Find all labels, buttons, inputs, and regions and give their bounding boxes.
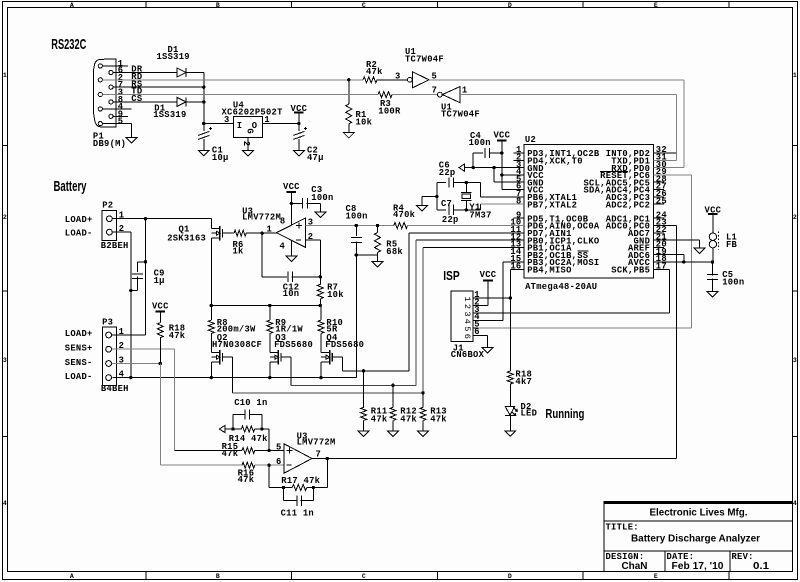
svg-text:ADC2,PC2: ADC2,PC2 bbox=[606, 200, 650, 210]
wire LOAD- bus bbox=[112, 377, 356, 379]
svg-text:ChaN: ChaN bbox=[622, 561, 648, 572]
wire Q1 source down bbox=[210, 238, 212, 306]
svg-text:0.1: 0.1 bbox=[753, 561, 769, 572]
transistor Q2 H7N0308CF bbox=[211, 352, 220, 354]
svg-text:LMV772M: LMV772M bbox=[242, 213, 281, 223]
svg-text:LOAD+: LOAD+ bbox=[65, 329, 93, 339]
svg-text:3: 3 bbox=[793, 357, 797, 364]
capacitor C3 100n bbox=[291, 202, 301, 204]
inductor L1 FB bbox=[709, 233, 716, 240]
wire Q2 gate drop bbox=[231, 357, 233, 393]
wire P1 pin4 stub bbox=[102, 108, 131, 110]
wire source bus y305 bbox=[211, 305, 321, 307]
op-amp U1 inverter a bbox=[408, 77, 413, 82]
capacitor C11 1n bbox=[283, 488, 285, 501]
svg-text:RS232C: RS232C bbox=[51, 36, 86, 53]
svg-text:SENS+: SENS+ bbox=[65, 344, 93, 354]
svg-text:47k: 47k bbox=[430, 415, 447, 425]
svg-text:VCC: VCC bbox=[493, 131, 510, 141]
wire Q3 source to LOAD- bus bbox=[269, 362, 271, 378]
wire PB0 net to Q4 gate bbox=[409, 232, 524, 234]
wire PB2 net to Q2 gate bbox=[423, 246, 524, 248]
wire P3 pin1 LOAD+ bbox=[112, 334, 146, 336]
wire gnd line to pin3 bbox=[464, 167, 524, 169]
wire R6 to U3a output bbox=[246, 232, 276, 234]
diode D1 (top) bbox=[177, 68, 186, 77]
svg-text:47k: 47k bbox=[400, 415, 417, 425]
svg-text:5: 5 bbox=[276, 442, 282, 452]
title block bbox=[604, 502, 793, 572]
svg-text:8: 8 bbox=[280, 216, 286, 226]
svg-text:LOAD-: LOAD- bbox=[65, 372, 93, 382]
svg-text:1: 1 bbox=[3, 72, 7, 79]
wire U3a -in down bbox=[306, 239, 321, 241]
wire MOSI net pin15 bbox=[503, 261, 524, 263]
resistor R5 68k bbox=[376, 224, 379, 227]
resistor R4 470k bbox=[394, 223, 408, 229]
svg-text:17: 17 bbox=[656, 262, 667, 272]
wire U4 pin3 input bbox=[204, 123, 234, 125]
U2 pin 22 stub bbox=[654, 232, 664, 234]
svg-text:P3: P3 bbox=[102, 318, 113, 328]
svg-text:CS: CS bbox=[131, 94, 142, 104]
diode D1 (bottom) bbox=[177, 97, 186, 106]
capacitor C10 1n bbox=[232, 415, 234, 430]
svg-text:22p: 22p bbox=[439, 168, 456, 178]
wire P1 pin9 stub bbox=[113, 115, 128, 117]
svg-text:100R: 100R bbox=[378, 106, 401, 116]
U2 pin 26 stub bbox=[654, 196, 664, 198]
svg-text:1SS319: 1SS319 bbox=[153, 110, 186, 120]
U2 pin14 SS overline bbox=[577, 250, 588, 252]
svg-text:Running: Running bbox=[545, 407, 584, 421]
node rail to U4 input bbox=[202, 122, 205, 125]
svg-text:C11 1n: C11 1n bbox=[281, 508, 314, 518]
svg-text:4: 4 bbox=[462, 319, 472, 324]
svg-text:10n: 10n bbox=[283, 289, 300, 299]
svg-text:47k: 47k bbox=[238, 475, 255, 485]
svg-text:VCC: VCC bbox=[152, 302, 169, 312]
svg-text:B2BEH: B2BEH bbox=[101, 241, 129, 251]
capacitor C9 1u bbox=[145, 219, 147, 335]
svg-text:C7: C7 bbox=[441, 199, 452, 209]
wire XTAL1 pin7 bbox=[480, 183, 482, 197]
svg-text:PB4,MISO: PB4,MISO bbox=[527, 266, 571, 276]
resistor R8 200m/3W bbox=[210, 306, 212, 321]
wire U3a +in / AIN0 line bbox=[306, 225, 394, 227]
wire RS net bbox=[113, 86, 204, 88]
U2 pin 27 stub bbox=[654, 189, 664, 191]
svg-text:C: C bbox=[362, 573, 366, 580]
wire U1b input from TXD bbox=[460, 94, 677, 96]
svg-text:1SS319: 1SS319 bbox=[157, 52, 190, 62]
U2 pin 11 stub bbox=[514, 232, 524, 234]
svg-text:3: 3 bbox=[3, 357, 7, 364]
wire RD net bbox=[102, 79, 363, 81]
svg-text:16: 16 bbox=[510, 262, 521, 272]
ground crystal bbox=[416, 206, 427, 212]
ground R13 bbox=[418, 431, 429, 437]
svg-text:A: A bbox=[70, 2, 74, 9]
U2 pin 20 stub bbox=[654, 246, 664, 248]
svg-text:2: 2 bbox=[793, 214, 797, 221]
svg-text:6: 6 bbox=[276, 457, 282, 467]
wire MISO net pin16 bbox=[510, 268, 524, 270]
svg-text:100n: 100n bbox=[311, 193, 333, 203]
connector J1 CN6BOX bbox=[451, 291, 473, 342]
U2 pin 24 stub bbox=[654, 217, 664, 219]
resistor R14 47k bbox=[225, 428, 242, 430]
wire U1a output to RXD bbox=[429, 79, 684, 81]
wire PB1 net to Q3 gate bbox=[416, 239, 524, 241]
svg-text:47k: 47k bbox=[222, 449, 239, 459]
U2 pin32 stub bbox=[654, 152, 677, 154]
resistor R16 47k bbox=[160, 464, 242, 466]
svg-text:B4BEH: B4BEH bbox=[101, 384, 129, 394]
wire RXD pin30 bbox=[654, 167, 685, 169]
svg-text:1: 1 bbox=[793, 72, 797, 79]
svg-text:1: 1 bbox=[264, 115, 270, 125]
wire VCC to pin4 bbox=[502, 174, 524, 176]
svg-text:3: 3 bbox=[224, 115, 230, 125]
svg-text:5: 5 bbox=[462, 326, 472, 331]
svg-text:1µ: 1µ bbox=[154, 276, 165, 286]
svg-text:B: B bbox=[216, 2, 220, 9]
svg-text:10k: 10k bbox=[327, 290, 344, 300]
resistor R15 47k bbox=[174, 450, 242, 452]
resistor R2 47k bbox=[363, 77, 377, 83]
svg-text:4: 4 bbox=[119, 369, 125, 379]
svg-text:100n: 100n bbox=[346, 212, 368, 222]
resistor R12 47k bbox=[392, 385, 394, 407]
svg-text:10µ: 10µ bbox=[212, 153, 229, 163]
wire rail to ground bbox=[422, 196, 437, 198]
svg-text:VCC: VCC bbox=[283, 182, 300, 192]
svg-text:LOAD+: LOAD+ bbox=[65, 215, 93, 225]
ground ISP bbox=[482, 348, 493, 354]
wire diode power rail vertical bbox=[203, 73, 205, 124]
ground C2 bbox=[293, 150, 304, 156]
svg-text:D: D bbox=[508, 573, 512, 580]
svg-text:FDS5680: FDS5680 bbox=[274, 340, 313, 350]
resistor R1 10k bbox=[348, 80, 350, 104]
ground C8/R5 bbox=[372, 261, 383, 267]
svg-text:100n: 100n bbox=[469, 138, 491, 148]
wire ADC0 pin23 to U3b output bbox=[654, 225, 677, 227]
regulator U4 XC6202P502T bbox=[233, 116, 262, 137]
op-amp U3a LMV772M bbox=[276, 218, 305, 248]
svg-text:XC6202P502T: XC6202P502T bbox=[222, 108, 284, 118]
ground R12 bbox=[388, 431, 399, 437]
U2 pin 2 stub bbox=[514, 159, 524, 161]
svg-text:470k: 470k bbox=[393, 210, 416, 220]
resistor R18 47k bbox=[157, 323, 163, 338]
svg-text:1: 1 bbox=[462, 297, 472, 302]
ground C1 bbox=[198, 150, 209, 156]
wire P3 pin2 SENS+ bbox=[112, 348, 175, 350]
ground U3a bbox=[286, 256, 297, 262]
wire Q4 gate drop bbox=[341, 357, 343, 371]
U2 pin 9 stub bbox=[514, 217, 524, 219]
svg-text:2: 2 bbox=[241, 141, 251, 146]
resistor R9 1R/1W bbox=[269, 306, 271, 321]
wire P1 pin5 to ground bbox=[102, 123, 131, 125]
ground C5 bbox=[707, 292, 718, 298]
connector P2 B2BEH bbox=[102, 211, 117, 241]
svg-text:FB: FB bbox=[726, 240, 738, 250]
wire ISP pin6 gnd bbox=[478, 334, 487, 336]
wire P1 pin1 stub bbox=[102, 65, 128, 67]
svg-text:TC7W04F: TC7W04F bbox=[405, 55, 444, 65]
svg-text:47µ: 47µ bbox=[307, 153, 324, 163]
capacitor C6 22p bbox=[437, 182, 446, 184]
svg-text:E: E bbox=[654, 2, 658, 9]
node RS junction bbox=[202, 86, 205, 89]
svg-text:Electronic Lives Mfg.: Electronic Lives Mfg. bbox=[650, 508, 748, 519]
ground P1 bbox=[126, 138, 137, 144]
capacitor C2 47u bbox=[298, 124, 300, 132]
resistor R3 100R bbox=[378, 92, 392, 98]
wire XTAL2 pin8 bbox=[466, 209, 480, 211]
ground U4 bbox=[243, 150, 254, 156]
svg-text:C10 1n: C10 1n bbox=[234, 398, 267, 408]
svg-text:25: 25 bbox=[656, 196, 667, 206]
svg-text:4: 4 bbox=[3, 500, 7, 507]
svg-text:3: 3 bbox=[395, 71, 401, 81]
capacitor C8 100n bbox=[355, 224, 358, 227]
wire AVCC pin18 bbox=[654, 261, 713, 263]
svg-text:6: 6 bbox=[462, 334, 472, 339]
svg-text:PB7,XTAL2: PB7,XTAL2 bbox=[527, 200, 577, 210]
wire D1 cathode to power node bbox=[186, 72, 204, 74]
wire U3a pin4 bbox=[291, 240, 293, 256]
mcu U2 ATmega48-20AU bbox=[524, 145, 654, 278]
wire P2 pin2 down bbox=[112, 231, 131, 233]
svg-text:C: C bbox=[362, 2, 366, 9]
wire P2 pin1 to Q1 drain bbox=[112, 218, 211, 220]
svg-text:REV:: REV: bbox=[732, 552, 754, 562]
ground pin21 bbox=[694, 248, 705, 254]
svg-text:1k: 1k bbox=[233, 247, 245, 257]
wire U3a pin8 bbox=[290, 203, 292, 225]
svg-text:68k: 68k bbox=[386, 247, 403, 257]
wire U4 pin1 output bbox=[263, 123, 299, 125]
svg-text:TC7W04F: TC7W04F bbox=[441, 109, 480, 119]
resistor R10 5R bbox=[320, 306, 322, 321]
svg-text:3: 3 bbox=[462, 311, 472, 316]
wire U3b output bbox=[312, 458, 327, 460]
svg-text:B: B bbox=[216, 573, 220, 580]
wire GND pin21 bbox=[654, 239, 700, 241]
net arrow gnd (R14) bbox=[219, 426, 225, 433]
svg-text:47k: 47k bbox=[169, 331, 186, 341]
svg-text:7M37: 7M37 bbox=[469, 210, 491, 220]
wire C6-C7 left rail bbox=[436, 183, 438, 210]
crystal Y1 7M37 bbox=[465, 181, 468, 184]
capacitor C7 22p bbox=[437, 209, 446, 211]
wire D1 bottom cathode to power node bbox=[186, 101, 204, 103]
ground D2 bbox=[505, 431, 516, 437]
connector P3 B4BEH bbox=[102, 327, 116, 385]
wire R4 to pin10 bbox=[408, 225, 524, 227]
svg-text:ATmega48-20AU: ATmega48-20AU bbox=[525, 282, 597, 292]
wire ADC6 pin19 bbox=[654, 254, 684, 256]
svg-text:Battery Discharge Analyzer: Battery Discharge Analyzer bbox=[631, 534, 760, 545]
svg-text:ISP: ISP bbox=[443, 269, 460, 283]
svg-text:4k7: 4k7 bbox=[515, 377, 532, 387]
svg-text:5: 5 bbox=[118, 117, 124, 127]
wire ISP pin1 MISO bbox=[478, 297, 510, 299]
capacitor C12 10n bbox=[261, 233, 263, 277]
wire SCK pin17 to ISP bbox=[654, 268, 670, 270]
capacitor C1 10u bbox=[203, 124, 205, 132]
svg-text:2: 2 bbox=[462, 304, 472, 309]
node RD/R1 junction bbox=[347, 78, 350, 81]
svg-text:2: 2 bbox=[3, 214, 7, 221]
svg-text:H7N0308CF: H7N0308CF bbox=[212, 340, 262, 350]
capacitor C4 100n bbox=[473, 152, 483, 154]
ground C3 bbox=[315, 212, 326, 218]
ground R1 bbox=[343, 133, 354, 139]
node U4 out / C2 bbox=[297, 122, 300, 125]
transistor Q4 FDS5680 bbox=[321, 352, 330, 354]
svg-text:DB9(M): DB9(M) bbox=[93, 139, 126, 149]
svg-text:47k: 47k bbox=[371, 415, 388, 425]
wire C8/R5 gnd bus bbox=[356, 254, 377, 256]
wire ISP pin2 VCC bbox=[478, 305, 488, 307]
svg-text:D: D bbox=[508, 2, 512, 9]
wire RESET pin29 to ISP bbox=[654, 174, 692, 176]
resistor R13 47k bbox=[422, 393, 424, 407]
U2 pin 25 stub bbox=[654, 203, 664, 205]
wire DR net bbox=[113, 72, 177, 74]
svg-text:E: E bbox=[654, 573, 658, 580]
U2 pin 1 stub bbox=[514, 152, 524, 154]
svg-text:P2: P2 bbox=[102, 201, 113, 211]
capacitor C5 100n bbox=[712, 262, 714, 275]
wire R2 to U1a input bbox=[377, 79, 408, 81]
svg-text:U2: U2 bbox=[525, 135, 536, 145]
U2 pin29 RESET overline bbox=[600, 170, 628, 172]
wire P3 pin3 SENS- bbox=[112, 363, 161, 365]
op-amp U1 inverter b bbox=[438, 92, 443, 97]
svg-text:2SK3163: 2SK3163 bbox=[167, 234, 206, 244]
wire TD net bbox=[102, 94, 378, 96]
transistor Q1 2SK3163 bbox=[211, 228, 220, 230]
resistor R7 10k bbox=[319, 277, 321, 285]
connector P1 DB9(M) bbox=[94, 59, 116, 127]
svg-text:Battery: Battery bbox=[54, 178, 87, 195]
LED D2 Running bbox=[505, 406, 515, 415]
resistor R6 1k bbox=[234, 230, 246, 236]
svg-text:TITLE:: TITLE: bbox=[606, 522, 639, 532]
svg-text:LOAD-: LOAD- bbox=[65, 228, 93, 238]
svg-text:8: 8 bbox=[516, 196, 522, 206]
svg-text:LMV772M: LMV772M bbox=[297, 438, 336, 448]
svg-text:CN6BOX: CN6BOX bbox=[451, 350, 485, 360]
wire R3 to U1b output bbox=[392, 94, 438, 96]
svg-text:R17 47k: R17 47k bbox=[281, 476, 320, 486]
resistor R18 4k7 bbox=[507, 371, 513, 384]
svg-text:FDS5680: FDS5680 bbox=[325, 340, 364, 350]
U2 pin 28 stub bbox=[654, 181, 664, 183]
svg-text:4: 4 bbox=[793, 500, 797, 507]
wire R14 to +in bbox=[262, 428, 269, 430]
node CS junction bbox=[202, 100, 205, 103]
wire Q2 source to LOAD- bus bbox=[210, 362, 212, 378]
svg-text:VCC: VCC bbox=[480, 270, 497, 280]
svg-text:4: 4 bbox=[279, 241, 285, 251]
svg-text:SCK,PB5: SCK,PB5 bbox=[611, 266, 650, 276]
svg-text:A: A bbox=[70, 573, 74, 580]
svg-text:G: G bbox=[245, 128, 255, 133]
resistor R17 47k bbox=[268, 465, 270, 487]
svg-text:10k: 10k bbox=[356, 118, 373, 128]
svg-text:Feb 17, '10: Feb 17, '10 bbox=[672, 561, 724, 572]
svg-text:LED: LED bbox=[521, 409, 538, 419]
op-amp U3b LMV772M bbox=[284, 444, 312, 473]
svg-text:22p: 22p bbox=[442, 215, 459, 225]
svg-text:1: 1 bbox=[266, 224, 272, 234]
wire TXD pin31 bbox=[654, 159, 677, 161]
svg-text:100n: 100n bbox=[722, 278, 744, 288]
transistor Q3 FDS5680 bbox=[270, 352, 279, 354]
ground R11 bbox=[358, 431, 369, 437]
net arrow gnd (U2) bbox=[459, 164, 465, 171]
wire Q4 source to LOAD- bus bbox=[320, 362, 322, 378]
wire U4 pin2 gnd bbox=[247, 138, 249, 151]
wire gnd branch to pin5 bbox=[493, 168, 495, 183]
svg-text:47k: 47k bbox=[366, 67, 383, 77]
wire Q3 gate drop bbox=[290, 357, 292, 385]
wire CS net bbox=[113, 101, 177, 103]
svg-text:I: I bbox=[237, 121, 243, 131]
svg-text:SENS-: SENS- bbox=[65, 358, 93, 368]
svg-text:7: 7 bbox=[432, 86, 438, 96]
resistor R11 47k bbox=[363, 371, 365, 407]
wire VCC to pin6 bbox=[502, 189, 524, 191]
